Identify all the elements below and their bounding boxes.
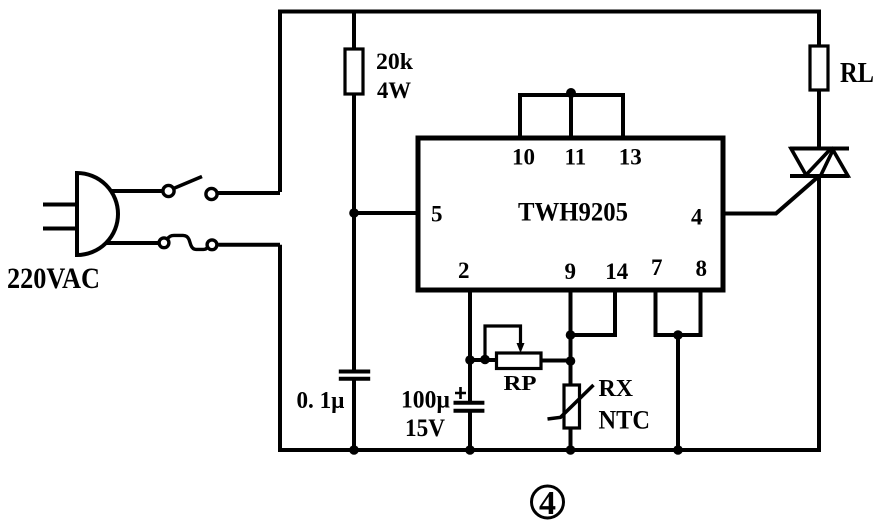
svg-text:20k: 20k [376, 49, 413, 74]
svg-text:8: 8 [696, 256, 708, 281]
svg-text:4W: 4W [377, 78, 411, 103]
svg-text:RL: RL [840, 57, 874, 89]
svg-text:10: 10 [512, 145, 535, 170]
svg-text:RX: RX [599, 376, 634, 402]
svg-text:TWH9205: TWH9205 [518, 198, 628, 227]
svg-text:4: 4 [691, 205, 703, 230]
svg-text:2: 2 [458, 258, 470, 283]
svg-text:11: 11 [565, 145, 587, 170]
svg-text:100µ: 100µ [401, 387, 450, 414]
svg-text:7: 7 [651, 255, 663, 280]
svg-text:14: 14 [605, 259, 629, 284]
svg-text:5: 5 [431, 202, 443, 227]
svg-text:0. 1µ: 0. 1µ [297, 388, 345, 414]
svg-text:NTC: NTC [599, 406, 651, 435]
svg-text:13: 13 [619, 145, 642, 170]
svg-text:15V: 15V [405, 415, 445, 442]
svg-text:RP: RP [504, 371, 537, 395]
svg-text:9: 9 [565, 259, 577, 284]
svg-text:220VAC: 220VAC [7, 262, 100, 295]
svg-text:4: 4 [539, 485, 556, 522]
